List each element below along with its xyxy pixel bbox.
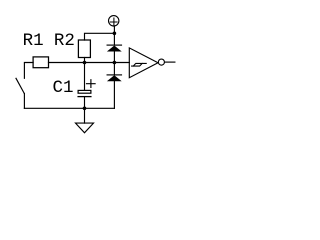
ground triangle [76, 123, 94, 133]
wire node B to D2 cathode [113, 63, 115, 75]
ground stub [84, 108, 86, 123]
switch S1 bottom pin [23, 94, 25, 109]
node B junction [113, 61, 117, 65]
wire bottom rail up to D2 anode [113, 81, 115, 108]
wire R2 top to node A [85, 33, 115, 40]
svg-text:R1: R1 [23, 31, 44, 51]
diode D1 cathode bar [107, 44, 121, 46]
wire D1 anode to node B [113, 51, 115, 62]
wire switch to R1 [24, 63, 33, 79]
resistor R1 [33, 57, 48, 68]
capacitor C1 top plate [78, 90, 91, 93]
diode D2 cathode bar [107, 74, 121, 76]
node A junction [113, 32, 117, 36]
capacitor C1 polarity plus [87, 80, 96, 88]
supply symbol VCC [109, 16, 119, 26]
inverter output bubble [158, 59, 164, 65]
hysteresis symbol [132, 63, 147, 66]
wire R2 bottom to node IN [84, 58, 86, 63]
wire VCC to node A [113, 26, 115, 45]
wire node IN down to C1 [84, 63, 86, 91]
switch S1 lever [16, 78, 24, 93]
ground junction [83, 107, 87, 111]
capacitor C1 bottom plate [78, 96, 91, 98]
wire R1 to inverter input [49, 62, 130, 64]
node IN junction [83, 61, 87, 65]
diode D2 triangle [107, 75, 122, 81]
wire C1 to ground rail [84, 97, 86, 109]
svg-text:R2: R2 [54, 31, 75, 51]
svg-text:C1: C1 [53, 78, 74, 98]
wire inverter output [165, 61, 175, 63]
op-amp U1 schmitt inverter triangle [129, 48, 158, 78]
resistor R2 [78, 40, 90, 58]
wire bottom ground rail [24, 107, 114, 109]
diode D1 triangle [107, 46, 122, 52]
